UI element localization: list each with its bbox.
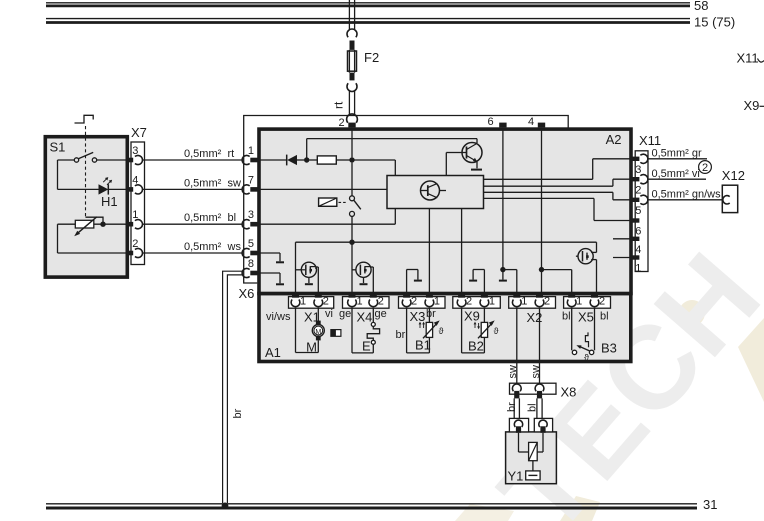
svg-text:1: 1 (300, 295, 306, 307)
svg-text:E: E (362, 339, 371, 354)
svg-text:4: 4 (132, 174, 138, 186)
wire S1 switch to X7 pin 3 (97, 159, 126, 161)
unit A outer frame (244, 116, 569, 284)
connector X2 on A1 (509, 297, 556, 309)
thermal switch B3 under X5 (572, 308, 617, 362)
X11 pin (number 6 below) (631, 218, 642, 237)
X8 socket right (535, 384, 544, 398)
svg-text:6: 6 (635, 226, 641, 238)
valve element in Y1 (526, 461, 540, 480)
X11 pin (number 1 below) (631, 255, 642, 274)
svg-text:br: br (396, 329, 406, 341)
direction icon beside motor (331, 330, 341, 337)
svg-text:br: br (232, 408, 244, 418)
note marker circled 2 (699, 161, 712, 174)
svg-text:31: 31 (703, 497, 717, 512)
transistor Q1 in A2 (462, 143, 482, 170)
X2 socket 1 (512, 292, 527, 307)
svg-text:ϑ: ϑ (494, 326, 499, 336)
svg-text:X5: X5 (578, 310, 594, 325)
svg-text:ge: ge (339, 308, 351, 320)
X7 pin 4 (126, 174, 143, 194)
relay coil K1 in A2 (319, 198, 348, 206)
resistor R1 in A2 (309, 156, 352, 164)
svg-text:2: 2 (635, 184, 641, 196)
X11 pin (number 5 below) (631, 195, 648, 217)
wire resistor node to driver box top (352, 160, 395, 176)
X2 socket 2 (535, 292, 550, 307)
svg-text:1: 1 (248, 145, 254, 157)
X6 pin 5 (242, 238, 257, 258)
svg-text:X9: X9 (464, 309, 480, 324)
wire 0,5mm² bl from X7 to A2/X6 (142, 212, 242, 224)
reference X11 top right (737, 51, 764, 66)
svg-text:ge: ge (375, 308, 387, 320)
wire 0,5mm² ws from X7 to A2/X6 (142, 241, 242, 253)
svg-text:0,5mm²: 0,5mm² (184, 241, 222, 253)
svg-text:15 (75): 15 (75) (694, 15, 735, 30)
svg-text:vi: vi (325, 308, 333, 320)
wire pot wiper junction to X7 pin 1 (94, 222, 126, 227)
wire S1 internal left branch (58, 160, 99, 189)
svg-text:0,5mm² vi: 0,5mm² vi (652, 168, 700, 180)
svg-text:sw: sw (507, 365, 519, 379)
svg-text:A2: A2 (606, 132, 622, 147)
svg-text:ws: ws (227, 241, 242, 253)
svg-text:Y1: Y1 (508, 469, 524, 484)
connector socket above fuse (347, 29, 357, 50)
valve unit Y1 (506, 418, 557, 483)
wire 0,5mm² rt from X7 to A2/X6 (142, 148, 242, 160)
wire 0,5mm² gr from X11 (648, 147, 707, 159)
A2 top pin 6 (487, 116, 506, 128)
svg-text:3: 3 (635, 164, 641, 176)
svg-text:X3: X3 (410, 309, 426, 324)
svg-text:0,5mm²: 0,5mm² (184, 212, 222, 224)
internal bus line in A2 (296, 242, 597, 295)
X9 socket 2 (457, 292, 472, 307)
svg-text:ϑ: ϑ (584, 353, 589, 363)
svg-text:3: 3 (248, 209, 254, 221)
X11 pin 6 internal stub (613, 238, 630, 240)
svg-text:X8: X8 (561, 385, 577, 400)
wire pot low end to X7 pin 2 (58, 224, 126, 253)
wire driver to X11 gn/ws pin (484, 192, 631, 200)
diode V1 in A2 (287, 155, 305, 166)
svg-text:0,5mm² gr: 0,5mm² gr (652, 147, 702, 159)
connector X8 (510, 383, 577, 399)
svg-text:2: 2 (378, 295, 384, 307)
LED H1 (99, 177, 118, 209)
connector X5 on A1 (564, 297, 611, 309)
Y1 socket right (539, 420, 547, 433)
connector socket below fuse (347, 73, 357, 92)
driver stage box U1 in A2 (387, 176, 484, 209)
wire 0,5mm² vi from X11 (648, 168, 706, 180)
svg-text:2: 2 (323, 295, 329, 307)
X6 pin 7 (242, 174, 257, 194)
svg-text:X6: X6 (239, 286, 255, 301)
svg-text:X11: X11 (737, 51, 759, 66)
wire driver box to pin X3-1 (428, 209, 430, 296)
connector X4 on A1 (343, 297, 390, 309)
wire node to transistor collector rail (307, 139, 477, 160)
svg-text:1: 1 (521, 295, 527, 307)
svg-text:vi/ws: vi/ws (266, 311, 291, 323)
svg-text:5: 5 (248, 238, 254, 250)
svg-text:2: 2 (599, 295, 605, 307)
X5 socket 2 (590, 292, 605, 307)
svg-text:br: br (426, 308, 436, 320)
X1 socket 2 (314, 292, 329, 307)
wire sw from X2-2 to X8 (530, 308, 542, 383)
svg-text:2: 2 (466, 295, 472, 307)
svg-text:br: br (506, 402, 518, 412)
svg-text:bl: bl (600, 311, 609, 323)
X8 socket left (512, 384, 521, 398)
X3 socket 1 (425, 292, 440, 307)
svg-text:2: 2 (544, 295, 550, 307)
wire bl from X8 to Y1 (527, 398, 543, 419)
wire driver to X11 gr pin (484, 159, 631, 180)
S1 actuator dashed link (85, 126, 87, 217)
wire H1 to X7 pin 4 (108, 188, 126, 190)
svg-text:1: 1 (132, 209, 138, 221)
hall sensor U3 in A2 (352, 262, 373, 295)
svg-text:bl: bl (562, 311, 571, 323)
wire X6 pin 7 to driver box (260, 188, 387, 190)
X11 pin (number 4 below) (631, 237, 642, 256)
X7 pin 1 (126, 209, 143, 229)
connector X7 (131, 125, 147, 265)
svg-text:M: M (306, 339, 317, 354)
connector X11 (635, 133, 661, 272)
svg-text:0,5mm² gn/ws: 0,5mm² gn/ws (652, 189, 722, 201)
potentiometer in S1 (74, 217, 103, 236)
svg-text:2: 2 (132, 238, 138, 250)
bus line 31 (46, 497, 717, 512)
wire 0,5mm² sw from X7 to A2/X6 (142, 177, 242, 189)
svg-text:B3: B3 (601, 341, 617, 356)
node supply column on internal bus (349, 240, 354, 245)
switch unit S1 (45, 137, 127, 277)
X7 pin 2 (126, 238, 143, 258)
S1 manual actuator (75, 115, 94, 123)
X11 pin (number 3 below) (631, 154, 648, 176)
X6 pin 5 internal stub (260, 253, 284, 262)
wire br from X6 pin 8 to terminal 31 (223, 271, 244, 503)
junction node on terminal 31 (222, 503, 229, 510)
svg-text:0,5mm²: 0,5mm² (184, 177, 222, 189)
solenoid coil in Y1 (519, 433, 544, 461)
X6 pin 8 (242, 258, 257, 278)
bus line 15 (75) (46, 15, 735, 30)
svg-text:2: 2 (702, 162, 708, 174)
svg-text:58: 58 (694, 0, 708, 13)
svg-text:4: 4 (528, 116, 534, 128)
svg-text:0,5mm²: 0,5mm² (184, 148, 222, 160)
wire driver box to pin X9-2 (461, 209, 463, 296)
svg-text:ϑ: ϑ (439, 326, 444, 336)
svg-text:1: 1 (635, 263, 641, 275)
svg-text:6: 6 (487, 116, 493, 128)
X1 socket 1 (291, 292, 306, 307)
svg-text:bl: bl (228, 212, 237, 224)
temperature sensor B1 under X3 (407, 308, 444, 353)
X4 socket 2 (369, 292, 384, 307)
junction node after diode (304, 157, 309, 162)
svg-text:B2: B2 (468, 339, 484, 354)
fuse F2 (348, 50, 380, 73)
svg-text:X7: X7 (131, 125, 147, 140)
reference X9 right (744, 98, 764, 113)
X11 pin 1 internal stub (613, 257, 630, 259)
X6 pin 8 internal stub (260, 273, 284, 284)
hall sensor U4 in A2 (576, 242, 597, 295)
svg-text:2: 2 (338, 117, 344, 129)
wire rt supply from terminal 15 to fuse F2 (349, 0, 354, 29)
wire A2 pin 4 column (539, 127, 572, 295)
box A1 (motor unit components) (259, 294, 631, 362)
svg-text:H1: H1 (101, 194, 118, 209)
connector X3 on A1 (399, 297, 446, 309)
svg-text:A1: A1 (265, 345, 281, 360)
wire from X6 pin 1 to diode (260, 159, 287, 161)
svg-text:M: M (315, 329, 321, 336)
svg-text:X12: X12 (722, 168, 745, 183)
svg-text:bl: bl (527, 403, 539, 412)
X9 socket 1 (480, 292, 495, 307)
wire sw from X2-1 to X8 (507, 308, 519, 383)
temperature sensor B2 under X9 (462, 308, 499, 353)
svg-text:4: 4 (635, 244, 641, 256)
connector X12 (722, 168, 745, 213)
svg-text:3: 3 (132, 145, 138, 157)
motor M under X1 (296, 308, 325, 354)
wire X6 pin 3 to driver box bottom (260, 209, 395, 225)
svg-text:S1: S1 (50, 140, 66, 155)
svg-text:5: 5 (635, 205, 641, 217)
S1 switch contact (74, 152, 96, 162)
level switch E under X4 (352, 308, 380, 353)
supply column wire in A2 (351, 127, 353, 295)
bus line 58 (46, 0, 708, 13)
X6 pin 3 (242, 209, 257, 229)
X5 socket 1 (567, 292, 582, 307)
internal stub to pin X3-2 (407, 270, 422, 296)
A2 top pin 2 with socket (338, 114, 357, 129)
wire rt from fuse to A2 pin 2 (332, 92, 355, 116)
svg-text:rt: rt (228, 148, 235, 160)
wire br from X8 to Y1 (506, 398, 519, 419)
svg-text:F2: F2 (364, 50, 379, 65)
svg-text:1: 1 (576, 295, 582, 307)
A2 top pin 4 (528, 116, 545, 128)
internal stub to pin X9-1 (469, 270, 484, 296)
svg-text:X4: X4 (357, 310, 373, 325)
svg-text:rt: rt (332, 101, 346, 109)
Y1 socket left (514, 420, 522, 433)
svg-text:1: 1 (356, 295, 362, 307)
hall sensor U2 in A2 (296, 262, 319, 295)
node on supply column at resistor row (349, 157, 354, 162)
wire driver to X11 vi pin (484, 179, 631, 186)
svg-text:1: 1 (489, 295, 495, 307)
watermark (455, 229, 764, 521)
X4 socket 1 (348, 292, 363, 307)
svg-text:2: 2 (411, 295, 417, 307)
X7 pin 3 (126, 145, 143, 165)
svg-text:8: 8 (248, 258, 254, 270)
X3 socket 2 (402, 292, 417, 307)
box A2 (control module) (259, 129, 631, 293)
svg-text:7: 7 (248, 174, 254, 186)
wire driver to X11 pin 5 (484, 198, 631, 220)
wire 0,5mm² gn/ws from X11 to X12 (648, 189, 722, 201)
connector X1 on A1 (289, 297, 334, 309)
svg-text:B1: B1 (415, 338, 431, 353)
X6 pin 1 (242, 145, 257, 165)
svg-text:sw: sw (228, 177, 242, 189)
svg-text:1: 1 (434, 295, 440, 307)
svg-text:X9: X9 (744, 98, 760, 113)
wire A2 pin 6 column (499, 127, 517, 295)
wire Q1 base to driver box (446, 153, 462, 176)
relay switch contact in A2 (350, 196, 361, 217)
connector X9 on A1 (453, 297, 501, 309)
X11 pin (number 2 below) (631, 175, 648, 197)
svg-text:X11: X11 (639, 133, 661, 148)
svg-text:sw: sw (530, 365, 542, 379)
